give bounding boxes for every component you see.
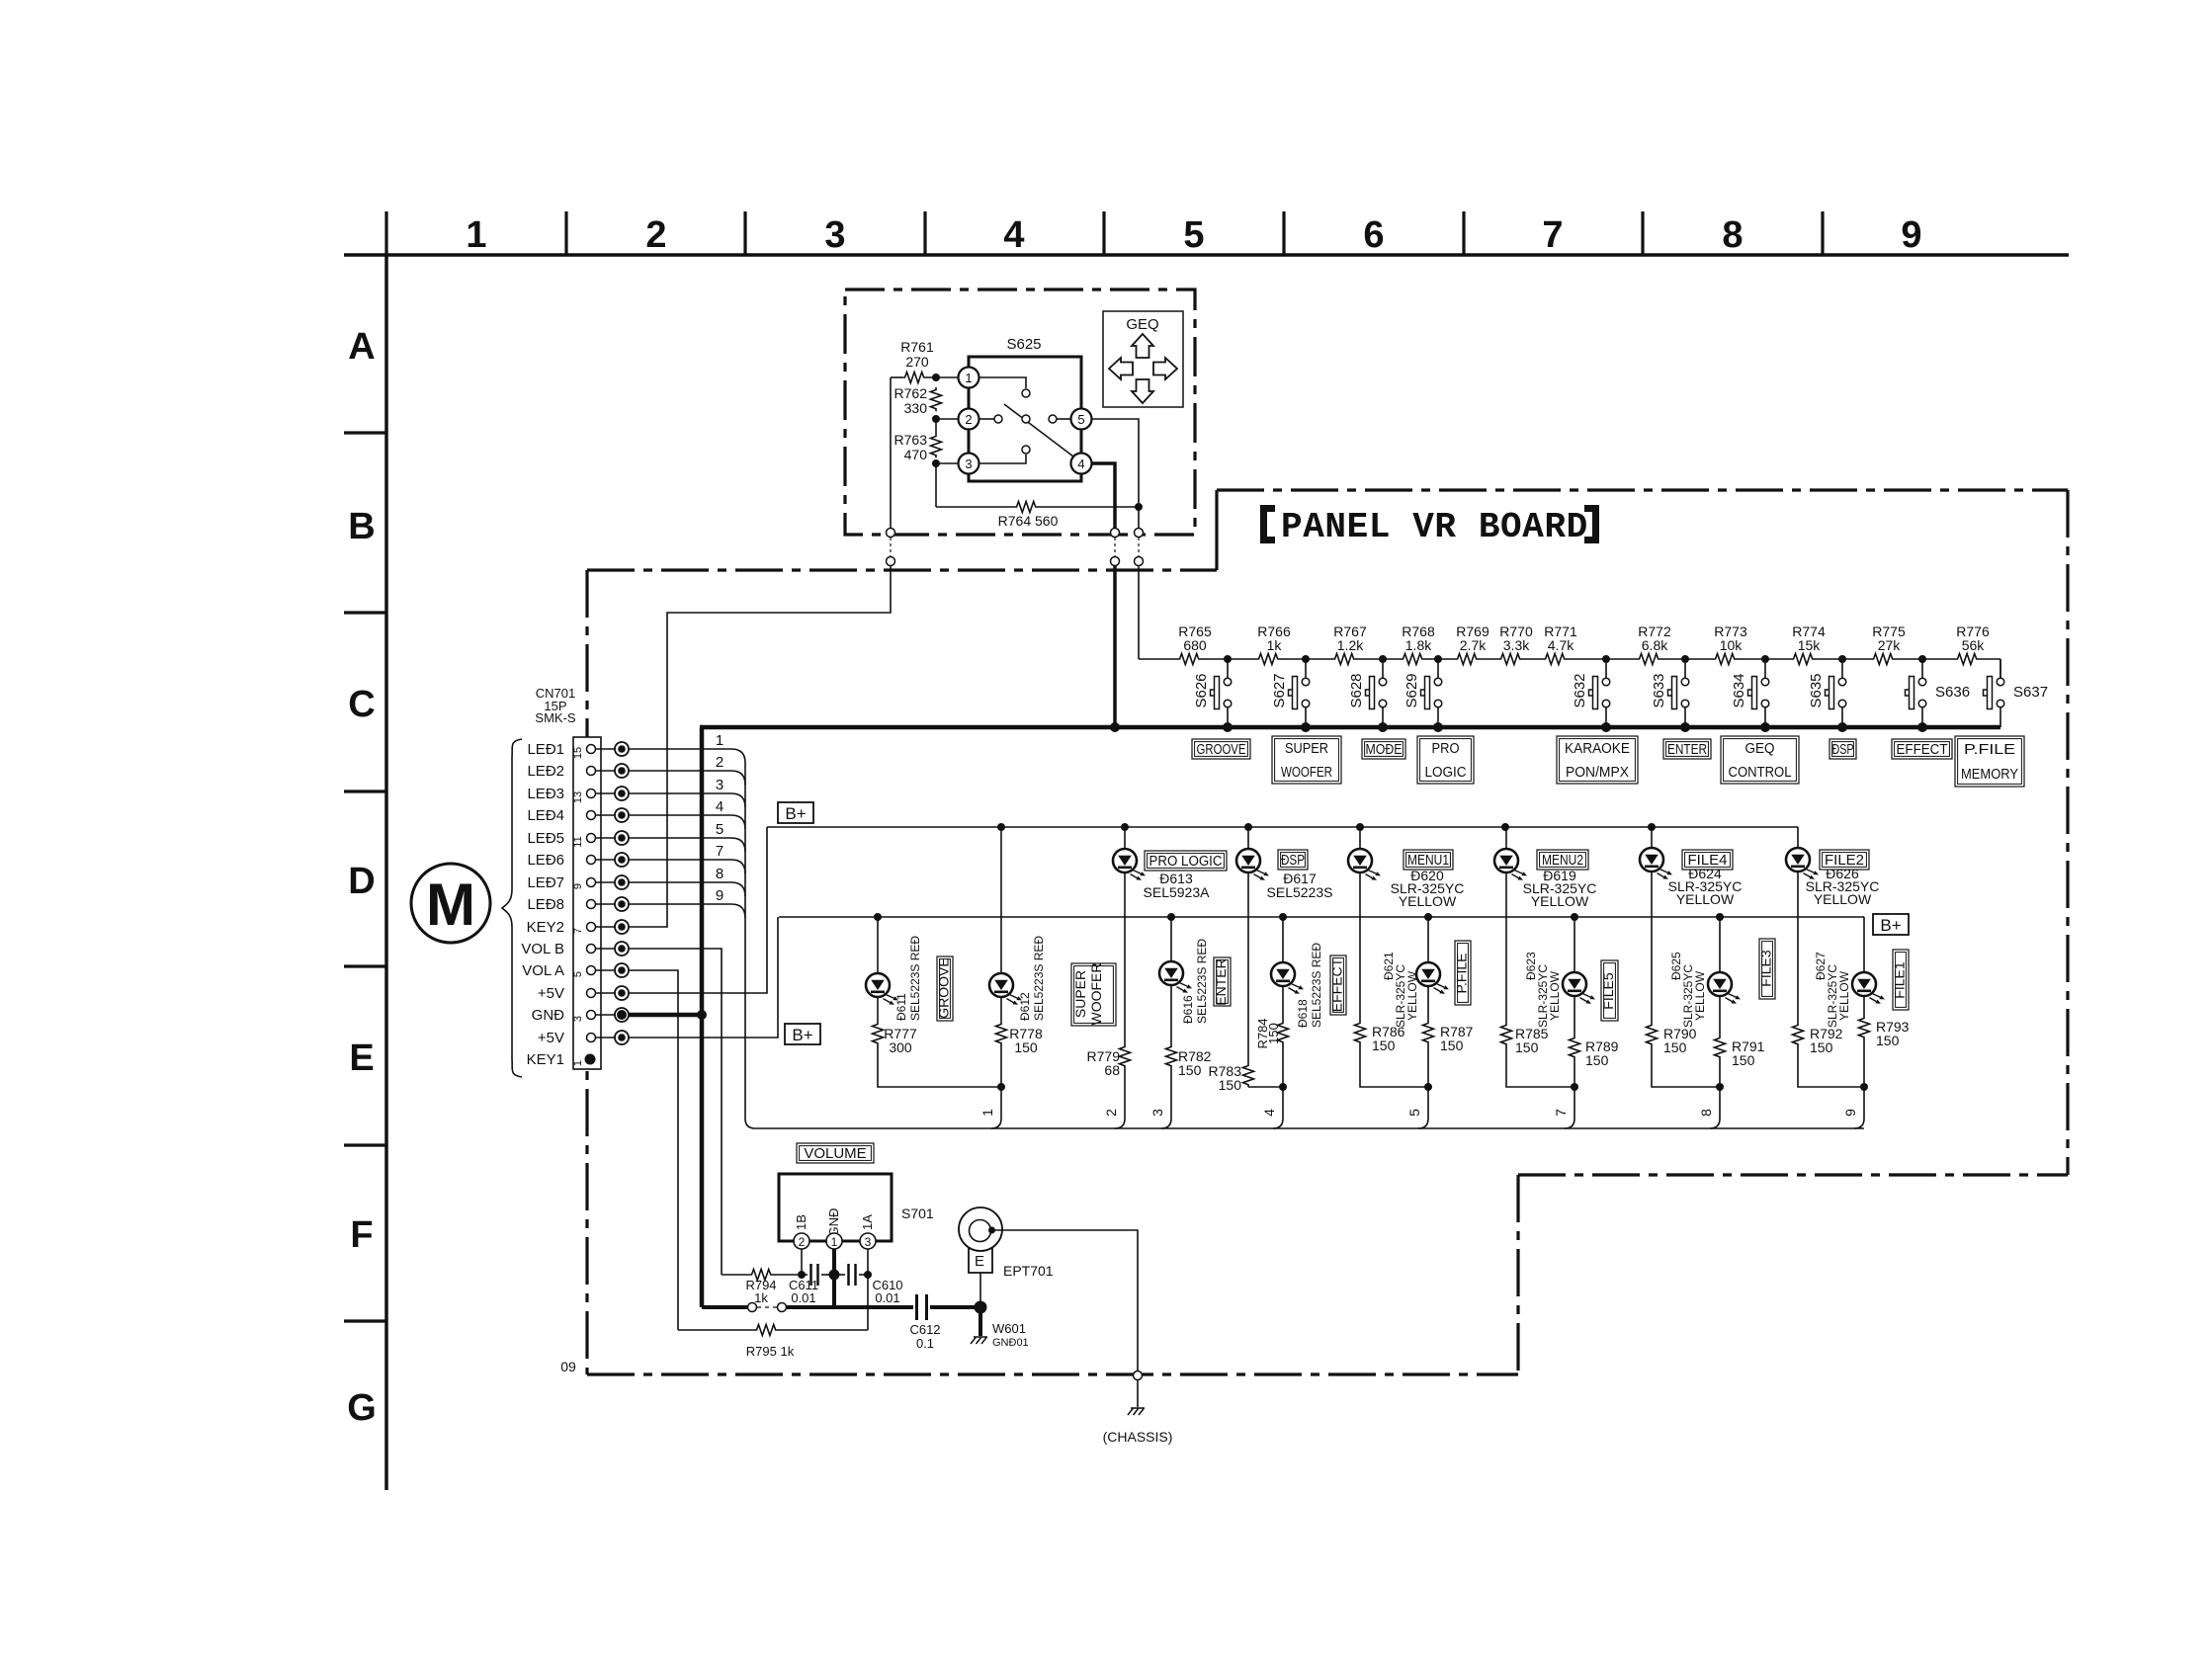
- svg-text:SMK-S: SMK-S: [535, 710, 576, 725]
- wire LED4 net 4: [629, 815, 745, 829]
- wire LED5 net 5: [629, 838, 745, 852]
- svg-text:470: 470: [904, 447, 928, 462]
- S625 wiper arm: [1004, 404, 1073, 457]
- svg-text:SEL5223S REĐ: SEL5223S REĐ: [1310, 943, 1323, 1028]
- svg-text:150: 150: [1585, 1052, 1609, 1068]
- svg-text:8: 8: [1722, 214, 1743, 256]
- svg-text:2: 2: [799, 1235, 806, 1249]
- switch S634: [1761, 655, 1769, 663]
- wire D624 to R790: [1651, 872, 1653, 1023]
- label box SUPER WOOFER rotated: [1071, 963, 1116, 1026]
- svg-text:PRO: PRO: [1432, 740, 1460, 757]
- LED column D613 (PRO LOGIC): [1124, 827, 1126, 849]
- LED D617: [1236, 849, 1269, 880]
- border ruler top line: [344, 253, 2069, 257]
- wire B+ top rail: [767, 826, 1798, 828]
- svg-text:ENTER: ENTER: [1213, 958, 1229, 1005]
- inter-board connector circles x=1152: [1135, 529, 1144, 538]
- svg-text:KEY2: KEY2: [527, 919, 564, 936]
- svg-text:6: 6: [1363, 214, 1384, 256]
- node join 8: [1716, 1083, 1724, 1091]
- label box FILE4: [1682, 850, 1733, 870]
- resistor R774: [1791, 652, 1815, 666]
- wire D619 to R785: [1505, 873, 1507, 1023]
- svg-text:4: 4: [1003, 214, 1024, 256]
- wire R778 to bus: [1000, 1045, 1002, 1119]
- wire resistor chain: [1139, 658, 2000, 660]
- label box ENTER rotated: [1214, 957, 1231, 1006]
- wire chain end down to S637: [1999, 659, 2001, 678]
- svg-text:YELLOW: YELLOW: [1548, 970, 1562, 1021]
- S625 pin 4: [1071, 454, 1092, 474]
- svg-text:4: 4: [1261, 1109, 1277, 1117]
- svg-text:Đ612: Đ612: [1018, 992, 1032, 1021]
- wire pin5 to resistor chain: [1138, 565, 1140, 659]
- wire D623 to R789: [1574, 996, 1575, 1036]
- svg-text:S628: S628: [1348, 673, 1365, 707]
- wire R789 to bus: [1574, 1059, 1575, 1119]
- S701 pin 1: [826, 1233, 842, 1249]
- resistor R768: [1401, 652, 1424, 666]
- border ruler row ticks: [344, 431, 386, 434]
- bus stub 1: [991, 1119, 1001, 1128]
- svg-text:KARAOKE: KARAOKE: [1565, 740, 1630, 757]
- svg-text:A: A: [348, 326, 375, 368]
- svg-text:WOOFER: WOOFER: [1281, 764, 1332, 781]
- svg-text:PON/MPX: PON/MPX: [1566, 764, 1629, 781]
- svg-text:W601: W601: [992, 1321, 1026, 1336]
- label box GROOVE rotated: [937, 956, 953, 1021]
- node R762/R763 junction: [932, 415, 940, 423]
- resistor R782: [1166, 1044, 1177, 1068]
- svg-text:YELLOW: YELLOW: [1814, 891, 1872, 907]
- LED D626: [1786, 848, 1819, 879]
- svg-text:LEĐ7: LEĐ7: [527, 874, 564, 891]
- wire D613 to R779: [1124, 873, 1126, 1044]
- switch S637: [1999, 659, 2001, 678]
- wire D618 to R784: [1282, 986, 1284, 1021]
- svg-text:KEY1: KEY1: [527, 1051, 564, 1068]
- svg-text:+5V: +5V: [538, 985, 564, 1002]
- label box ENTER: [1663, 739, 1711, 759]
- svg-text:(CHASSIS): (CHASSIS): [1103, 1429, 1173, 1445]
- resistor R786: [1355, 1021, 1366, 1044]
- wire R784 to bus: [1282, 1044, 1284, 1119]
- bus stub 8: [1710, 1119, 1720, 1128]
- wire R786 to join: [1360, 1044, 1428, 1087]
- border crossing circle: [1134, 1371, 1143, 1380]
- svg-text:LEĐ6: LEĐ6: [527, 852, 564, 869]
- resistor R778: [996, 1022, 1007, 1045]
- LED D613: [1113, 849, 1146, 880]
- LED column D611 (GROOVE): [877, 917, 879, 973]
- resistor R790: [1647, 1023, 1658, 1046]
- CN701 brace: [502, 739, 522, 1077]
- svg-text:15k: 15k: [1798, 637, 1822, 653]
- svg-text:S701: S701: [901, 1205, 934, 1221]
- svg-text:150: 150: [1178, 1062, 1202, 1078]
- capacitor C611: [802, 1274, 808, 1276]
- svg-text:GNĐ01: GNĐ01: [992, 1337, 1029, 1349]
- wire pin4 to GND bus (thick): [1113, 565, 1117, 727]
- switch S627: [1302, 655, 1310, 663]
- svg-text:1A: 1A: [860, 1214, 875, 1230]
- LED column D627 (FILE1): [1863, 917, 1865, 972]
- svg-text:B+: B+: [792, 1026, 812, 1044]
- wire D620 to R786: [1359, 873, 1361, 1021]
- label box PRO LOGIC: [1145, 851, 1227, 871]
- label box EFFECT rotated: [1330, 956, 1346, 1015]
- svg-text:S626: S626: [1193, 673, 1210, 707]
- svg-text:GNĐ: GNĐ: [532, 1007, 565, 1024]
- svg-text:CONTROL: CONTROL: [1729, 764, 1792, 781]
- wire R777 to join: [878, 1045, 1001, 1087]
- wire R787 to bus: [1427, 1044, 1429, 1119]
- switch S633: [1681, 655, 1689, 663]
- svg-text:Đ618: Đ618: [1296, 999, 1310, 1028]
- svg-text:SEL5223S: SEL5223S: [1267, 884, 1333, 900]
- resistor R789: [1570, 1036, 1580, 1059]
- svg-text:5: 5: [716, 821, 723, 838]
- svg-text:C: C: [348, 684, 375, 725]
- LED column D618 (EFFECT): [1282, 917, 1284, 962]
- S625 contacts: [1022, 389, 1030, 397]
- svg-text:150: 150: [1219, 1077, 1242, 1093]
- resistor R775: [1871, 652, 1895, 666]
- svg-text:7: 7: [1553, 1109, 1569, 1117]
- wire GND bus (thick): [700, 725, 2000, 730]
- svg-text:YELLOW: YELLOW: [1676, 891, 1735, 907]
- node W601 junction: [975, 1301, 987, 1314]
- wire VOL A down: [629, 970, 678, 1330]
- PANEL VR BOARD dash-dot border: [1217, 488, 2068, 491]
- svg-text:68: 68: [1104, 1062, 1120, 1078]
- svg-text:WOOFER: WOOFER: [1088, 963, 1104, 1026]
- svg-text:S632: S632: [1572, 673, 1588, 707]
- label box P.FILE rotated: [1455, 941, 1471, 1005]
- resistor R764: [935, 463, 937, 507]
- svg-text:SEL5923A: SEL5923A: [1144, 884, 1211, 900]
- nodes on B+ top rail: [997, 823, 1005, 831]
- nodes on B+ second rail: [874, 913, 882, 921]
- svg-text:MENU2: MENU2: [1542, 852, 1583, 869]
- svg-text:1k: 1k: [1267, 637, 1283, 653]
- svg-text:330: 330: [904, 400, 928, 416]
- label box MENU2: [1537, 850, 1588, 870]
- node GND/C611 junction: [829, 1270, 840, 1281]
- svg-text:15: 15: [572, 747, 584, 759]
- label box KARAOKE PON/MPX: [1557, 736, 1638, 784]
- node R764 right junction: [1135, 503, 1143, 511]
- label box P.FILE MEMORY: [1955, 736, 2024, 787]
- svg-text:S629: S629: [1404, 673, 1420, 707]
- svg-text:LEĐ8: LEĐ8: [527, 896, 564, 913]
- wire GND vertical (thick): [700, 727, 705, 1307]
- svg-text:300: 300: [889, 1039, 912, 1055]
- wire D611 to R777: [877, 997, 879, 1022]
- svg-text:2: 2: [716, 754, 723, 771]
- LED D625: [1708, 972, 1741, 1004]
- svg-text:3.3k: 3.3k: [1503, 637, 1530, 653]
- inter-board connector circles x=1128: [1111, 529, 1120, 538]
- chassis ground symbol: [1128, 1408, 1145, 1415]
- svg-text:GROOVE: GROOVE: [936, 957, 952, 1018]
- S625 pin 1: [959, 368, 979, 388]
- switch S625 body: [969, 357, 1081, 481]
- svg-text:3: 3: [716, 777, 723, 793]
- svg-text:Đ611: Đ611: [894, 993, 908, 1021]
- svg-text:Đ616: Đ616: [1181, 995, 1195, 1024]
- svg-text:680: 680: [1183, 637, 1207, 653]
- svg-text:5: 5: [572, 971, 584, 977]
- GEQ right arrow: [1153, 358, 1177, 379]
- resistor R771: [1543, 652, 1567, 666]
- wire LED2 net 2: [629, 771, 745, 785]
- svg-text:8: 8: [1698, 1109, 1714, 1117]
- resistor R785: [1501, 1023, 1512, 1046]
- resistor R787: [1423, 1021, 1434, 1044]
- svg-text:GEQ: GEQ: [1745, 740, 1775, 757]
- bus stub 3: [1161, 1119, 1171, 1128]
- svg-text:11: 11: [572, 836, 584, 847]
- switch S632: [1602, 655, 1610, 663]
- svg-text:R764 560: R764 560: [998, 513, 1059, 529]
- svg-text:R795 1k: R795 1k: [746, 1344, 795, 1359]
- switch S626: [1224, 655, 1232, 663]
- svg-text:EFFECT: EFFECT: [1329, 957, 1345, 1012]
- resistor R792: [1793, 1023, 1804, 1046]
- node R761/R762 junction: [932, 374, 940, 381]
- svg-text:R763: R763: [894, 432, 928, 448]
- label box SUPER WOOFER: [1272, 736, 1341, 784]
- resistor R776: [1955, 652, 1979, 666]
- svg-text:56k: 56k: [1962, 637, 1986, 653]
- LED column D623 (FILE5): [1574, 917, 1575, 972]
- svg-text:GEQ: GEQ: [1126, 316, 1158, 333]
- wire S701 pin2 down: [801, 1249, 803, 1275]
- resistor R779: [1120, 1044, 1131, 1068]
- label box DSP: [1278, 850, 1308, 870]
- resistor R765: [1177, 652, 1201, 666]
- resistor R769: [1455, 652, 1479, 666]
- bus stub 5: [1418, 1119, 1428, 1128]
- LED D624: [1640, 848, 1672, 879]
- svg-text:9: 9: [1842, 1109, 1858, 1117]
- svg-text:ĐSP: ĐSP: [1832, 741, 1854, 758]
- svg-text:3: 3: [965, 457, 972, 471]
- svg-text:1: 1: [466, 214, 486, 256]
- svg-text:S627: S627: [1271, 673, 1288, 707]
- svg-text:2: 2: [965, 412, 972, 427]
- resistor R767: [1332, 652, 1356, 666]
- svg-text:1.2k: 1.2k: [1337, 637, 1364, 653]
- svg-text:S636: S636: [1935, 684, 1970, 701]
- label box FILE1 rotated: [1893, 950, 1909, 1010]
- node join 1: [997, 1083, 1005, 1091]
- label box FILE5 rotated: [1601, 960, 1618, 1021]
- svg-text:LEĐ4: LEĐ4: [527, 807, 564, 824]
- switch S628: [1379, 655, 1387, 663]
- node GND bus / pin4 junction: [1110, 722, 1120, 732]
- svg-text:YELLOW: YELLOW: [1693, 970, 1707, 1021]
- svg-text:FILE5: FILE5: [1600, 972, 1616, 1010]
- svg-text:YELLOW: YELLOW: [1405, 970, 1419, 1021]
- S701 pin 2: [794, 1233, 809, 1249]
- svg-text:1: 1: [979, 1109, 995, 1117]
- svg-text:150: 150: [1876, 1033, 1900, 1048]
- connector CN701 outline: [573, 737, 601, 1069]
- LED D619: [1494, 849, 1527, 880]
- wire R782 to bus: [1170, 1068, 1172, 1119]
- border ruler column ticks: [384, 211, 387, 255]
- wire D627 to R793: [1863, 996, 1865, 1016]
- svg-text:1: 1: [965, 371, 972, 385]
- svg-text:LEĐ2: LEĐ2: [527, 763, 564, 780]
- resistor R770: [1498, 652, 1522, 666]
- motor M symbol: [411, 864, 490, 943]
- svg-text:2: 2: [1103, 1109, 1119, 1117]
- svg-text:1.8k: 1.8k: [1405, 637, 1432, 653]
- svg-text:150: 150: [1440, 1038, 1464, 1053]
- LED column D616 (ENTER): [1170, 917, 1172, 961]
- label box MENU1: [1404, 850, 1453, 870]
- LED D623: [1563, 972, 1595, 1004]
- wire LED6 net 7: [629, 860, 745, 873]
- svg-text:4: 4: [1077, 457, 1084, 471]
- LED column D617 (DSP): [1247, 827, 1249, 849]
- wire B+ second rail: [779, 916, 1864, 918]
- svg-text:S635: S635: [1808, 673, 1825, 707]
- svg-text:150: 150: [1810, 1039, 1833, 1055]
- resistor R763: [935, 419, 937, 434]
- svg-text:5: 5: [1183, 214, 1204, 256]
- inter-board connector circles x=901: [890, 377, 892, 528]
- label B+ 3: [1873, 914, 1909, 935]
- S625 sub-board dash-dot border: [845, 290, 1195, 535]
- svg-text:0.01: 0.01: [791, 1290, 815, 1305]
- LED column D621 (P.FILE): [1427, 917, 1429, 962]
- svg-text:9: 9: [716, 887, 723, 904]
- label box EFFECT: [1892, 739, 1952, 759]
- LED D620: [1348, 849, 1381, 880]
- capacitor C612: [915, 1294, 918, 1320]
- svg-text:FILE1: FILE1: [1892, 961, 1908, 999]
- S625 pin 2: [959, 409, 979, 430]
- wire LED matrix bottom bus: [755, 1127, 1864, 1129]
- GEQ left arrow: [1109, 358, 1133, 379]
- svg-text:GROOVE: GROOVE: [1197, 741, 1246, 758]
- wire +5V (row12) to B+: [629, 827, 767, 993]
- svg-text:PRO LOGIC: PRO LOGIC: [1149, 853, 1223, 870]
- svg-text:270: 270: [905, 354, 929, 370]
- label box GEQ CONTROL: [1721, 736, 1799, 784]
- svg-text:0.1: 0.1: [916, 1336, 934, 1351]
- wire D612 to R778: [1000, 997, 1002, 1022]
- svg-text:MOĐE: MOĐE: [1366, 741, 1403, 758]
- svg-text:S633: S633: [1651, 673, 1667, 707]
- title PANEL VR BOARD: [1260, 505, 1275, 543]
- svg-text:7: 7: [1542, 214, 1563, 256]
- LED D616: [1159, 961, 1192, 993]
- wire pin5 right: [1092, 419, 1140, 529]
- resistor R773: [1713, 652, 1737, 666]
- svg-text:YELLOW: YELLOW: [1531, 893, 1589, 909]
- svg-text:7: 7: [572, 928, 584, 934]
- wire junction3 to pin3: [936, 462, 958, 464]
- svg-text:4: 4: [716, 798, 723, 815]
- GEQ rocker icon box: [1103, 311, 1183, 407]
- svg-text:B+: B+: [1880, 916, 1901, 935]
- S625 pin 3: [959, 454, 979, 474]
- wire +5V (row14) to B+ 2: [629, 917, 778, 1038]
- label box FILE3 rotated: [1759, 939, 1775, 999]
- svg-text:PANEL VR BOARD: PANEL VR BOARD: [1281, 507, 1588, 547]
- svg-text:LEĐ3: LEĐ3: [527, 786, 564, 802]
- wire D625 to R791: [1719, 996, 1721, 1036]
- label B+ 2: [785, 1024, 820, 1044]
- svg-text:1k: 1k: [754, 1290, 768, 1305]
- svg-text:8: 8: [716, 866, 723, 882]
- label box DSP: [1829, 739, 1856, 759]
- svg-text:M: M: [426, 872, 475, 938]
- wire LED3 net 3: [629, 793, 745, 807]
- switch S629: [1434, 655, 1442, 663]
- wire S701 pin1 down (thick): [832, 1249, 836, 1307]
- svg-text:GNĐ: GNĐ: [826, 1208, 841, 1237]
- resistor R794: [722, 1274, 749, 1276]
- svg-text:4.7k: 4.7k: [1548, 637, 1574, 653]
- bus stub 4: [1273, 1119, 1283, 1128]
- svg-text:7: 7: [716, 843, 723, 860]
- svg-text:1B: 1B: [794, 1214, 808, 1230]
- wire KEY2 from S625: [629, 565, 891, 927]
- ground W601: [978, 1307, 982, 1336]
- wire D621 to R787: [1427, 986, 1429, 1021]
- svg-text:F: F: [350, 1214, 373, 1256]
- LED D611: [866, 973, 898, 1005]
- node join 7: [1571, 1083, 1578, 1091]
- svg-text:1: 1: [572, 1060, 584, 1066]
- svg-text:S634: S634: [1731, 673, 1747, 707]
- svg-text:SEL5223S REĐ: SEL5223S REĐ: [908, 936, 922, 1021]
- svg-text:150: 150: [1732, 1052, 1755, 1068]
- svg-text:3: 3: [1149, 1109, 1165, 1117]
- node GND pin junction: [697, 1010, 707, 1020]
- wire R790 to join: [1652, 1046, 1720, 1087]
- label box GROOVE: [1192, 739, 1250, 759]
- svg-text:LEĐ1: LEĐ1: [527, 741, 564, 758]
- label box VOLUME: [797, 1143, 874, 1163]
- bus bottom corner: [745, 1119, 755, 1128]
- wire EPT701 to chassis: [992, 1230, 1139, 1371]
- svg-text:5: 5: [1406, 1109, 1422, 1117]
- svg-text:FILE3: FILE3: [1758, 950, 1774, 987]
- LED D618: [1271, 962, 1304, 994]
- svg-text:LOGIC: LOGIC: [1425, 764, 1467, 781]
- LED column D612 (SUPER WOOFER): [1000, 827, 1002, 973]
- label box FILE2: [1820, 850, 1869, 870]
- CN701 pads: [615, 742, 629, 756]
- svg-text:R761: R761: [900, 339, 934, 355]
- svg-text:S637: S637: [2013, 684, 2048, 701]
- wire VOL B down: [629, 949, 722, 1275]
- svg-text:S625: S625: [1006, 336, 1041, 353]
- border ruler left line: [384, 255, 388, 1490]
- wire D616 to R782: [1170, 985, 1172, 1044]
- wire R792 to join: [1798, 1046, 1864, 1087]
- svg-text:P.FILE: P.FILE: [1454, 954, 1470, 994]
- svg-text:150: 150: [1266, 1023, 1281, 1044]
